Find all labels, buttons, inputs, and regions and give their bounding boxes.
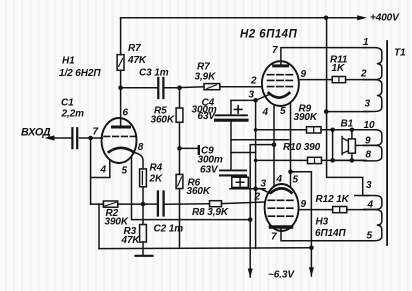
svg-text:8: 8 xyxy=(138,142,144,153)
svg-text:1/2 6Н2П: 1/2 6Н2П xyxy=(59,68,101,79)
svg-text:390K: 390K xyxy=(294,112,318,123)
svg-text:+400V: +400V xyxy=(370,12,400,23)
svg-text:5: 5 xyxy=(293,175,299,186)
svg-text:R7: R7 xyxy=(128,43,141,54)
svg-text:47K: 47K xyxy=(121,235,141,246)
svg-text:4: 4 xyxy=(276,174,283,185)
svg-text:5: 5 xyxy=(122,166,128,177)
svg-text:R4: R4 xyxy=(150,163,163,174)
svg-text:6П14П: 6П14П xyxy=(315,228,346,239)
svg-text:2: 2 xyxy=(360,69,367,80)
svg-text:H3: H3 xyxy=(316,217,329,228)
svg-text:7: 7 xyxy=(272,45,278,56)
svg-text:H2 6П14П: H2 6П14П xyxy=(240,28,298,40)
svg-text:9: 9 xyxy=(365,136,371,147)
svg-text:C2 1m: C2 1m xyxy=(154,224,184,235)
svg-text:7: 7 xyxy=(271,232,277,243)
svg-text:4: 4 xyxy=(100,165,107,176)
svg-text:2,2m: 2,2m xyxy=(61,109,85,120)
svg-text:H1: H1 xyxy=(62,56,75,67)
svg-text:9: 9 xyxy=(301,69,307,80)
svg-text:B1: B1 xyxy=(341,119,354,130)
svg-text:360K: 360K xyxy=(151,115,175,126)
svg-text:4: 4 xyxy=(262,107,269,118)
svg-text:6: 6 xyxy=(123,108,129,119)
svg-text:2: 2 xyxy=(254,192,261,203)
svg-text:5: 5 xyxy=(280,106,286,117)
svg-text:R8 3,9K: R8 3,9K xyxy=(192,207,229,218)
svg-text:3,9K: 3,9K xyxy=(195,72,217,83)
svg-text:1K: 1K xyxy=(332,63,345,74)
svg-text:3: 3 xyxy=(366,180,372,191)
svg-text:7: 7 xyxy=(93,127,99,138)
svg-text:63V: 63V xyxy=(200,165,219,176)
svg-text:8: 8 xyxy=(366,149,372,160)
svg-text:ВХОД: ВХОД xyxy=(21,126,51,138)
svg-text:47K: 47K xyxy=(127,55,147,66)
svg-text:9: 9 xyxy=(301,199,307,210)
svg-text:3: 3 xyxy=(249,90,255,101)
svg-text:4: 4 xyxy=(367,200,374,211)
svg-text:63V: 63V xyxy=(198,111,217,122)
svg-text:C1: C1 xyxy=(61,98,74,109)
svg-text:T1: T1 xyxy=(394,48,406,59)
svg-text:R10 390: R10 390 xyxy=(283,142,321,153)
svg-text:5: 5 xyxy=(367,230,373,241)
svg-text:~6.3V: ~6.3V xyxy=(268,270,295,281)
svg-text:2K: 2K xyxy=(149,174,163,185)
svg-text:R12 1K: R12 1K xyxy=(316,194,350,205)
svg-text:2: 2 xyxy=(250,76,257,87)
svg-text:10: 10 xyxy=(364,120,376,131)
svg-text:3: 3 xyxy=(261,179,267,190)
svg-text:360K: 360K xyxy=(187,186,211,197)
svg-text:3: 3 xyxy=(365,99,371,110)
svg-text:C3 1m: C3 1m xyxy=(139,68,169,79)
svg-text:1: 1 xyxy=(363,37,369,48)
